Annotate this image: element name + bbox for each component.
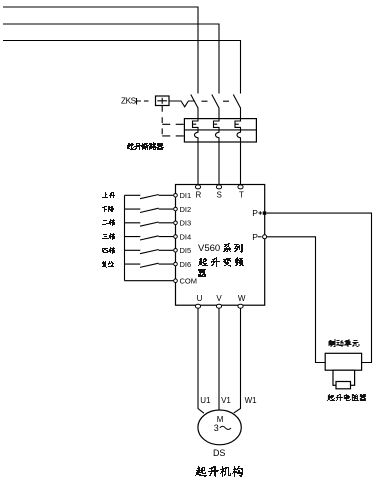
- magnetic trip element pole 2: [214, 119, 220, 130]
- label 下降: [102, 206, 114, 212]
- label 二档: [102, 219, 115, 226]
- switch contact 二档: [125, 222, 174, 224]
- dashed trip link upper: [162, 123, 184, 125]
- svg-text:ZKS: ZKS: [121, 96, 137, 105]
- label line3 器: [198, 269, 206, 277]
- svg-text:S: S: [217, 190, 222, 199]
- ZKS contact tick: [137, 98, 142, 105]
- label 起升电阻器: [327, 394, 366, 401]
- terminal T: [238, 185, 243, 189]
- svg-text:DI6: DI6: [180, 260, 192, 269]
- terminal DI1: [174, 194, 178, 198]
- wire QF to inverter T: [240, 142, 242, 185]
- thermal trip element pole 3: [237, 130, 241, 142]
- wire L1 phase-A feed: [3, 7, 198, 94]
- thermal trip element pole 1: [195, 130, 199, 142]
- motor DS circle: [198, 410, 241, 445]
- svg-text:W1: W1: [245, 396, 258, 405]
- wire L2 phase-B feed: [3, 24, 219, 94]
- wire blade to trip body pole 2: [218, 108, 220, 120]
- label 起升机构: [195, 466, 243, 477]
- inverter V560 box: [176, 185, 265, 306]
- label 四档: [102, 247, 115, 254]
- svg-text:V: V: [216, 294, 222, 303]
- label 制动单元: [329, 339, 360, 347]
- trip unit box with plus: [156, 96, 170, 106]
- svg-text:3: 3: [214, 423, 219, 433]
- switch contact 三档: [125, 236, 174, 238]
- breaker QF pole 2 blade: [212, 95, 219, 109]
- terminal DI5: [174, 249, 178, 253]
- label 起升断路器: [127, 142, 164, 150]
- thermal trip element pole 2: [216, 130, 220, 142]
- breaker linkage dash 2-3: [223, 100, 229, 102]
- svg-text:COM: COM: [180, 277, 198, 286]
- terminal DI3: [174, 221, 178, 225]
- terminal P-: [263, 235, 267, 239]
- dashed trip link lower: [162, 135, 184, 137]
- svg-text:DI5: DI5: [180, 246, 192, 255]
- terminal DI2: [174, 207, 178, 211]
- wire trip box to breaker linkage with V kink: [169, 101, 194, 107]
- dashed trip linkage vertical: [161, 106, 163, 137]
- resistor body box: [333, 370, 355, 385]
- svg-text:T: T: [239, 190, 244, 199]
- terminal P+: [263, 211, 266, 214]
- wire L3 phase-C feed: [3, 41, 241, 94]
- label line2 起升变频: [198, 257, 244, 267]
- svg-text:DI2: DI2: [180, 205, 192, 214]
- svg-text:V1: V1: [221, 396, 231, 405]
- terminal W: [238, 304, 243, 308]
- wire V to motor V1: [218, 308, 220, 410]
- terminal DI6: [174, 262, 178, 266]
- svg-text:P: P: [252, 232, 258, 242]
- label 上升: [102, 192, 115, 198]
- breaker linkage dash 1-2: [202, 100, 208, 102]
- terminal U: [195, 304, 200, 308]
- wire blade to trip body pole 1: [197, 108, 199, 120]
- magnetic trip element pole 3: [235, 119, 241, 130]
- terminal R: [195, 185, 200, 189]
- breaker QF pole 1 blade: [191, 95, 198, 109]
- svg-text:W: W: [238, 294, 246, 303]
- switch contact 四档: [125, 249, 174, 251]
- breaker QF pole 3 blade: [233, 95, 240, 109]
- terminal S: [216, 185, 221, 189]
- label 三档: [102, 233, 115, 240]
- terminal DI4: [174, 235, 178, 239]
- svg-text:DI4: DI4: [180, 233, 192, 242]
- svg-text:R: R: [196, 190, 202, 199]
- wire P- to braking unit: [267, 237, 326, 363]
- resistor element box: [336, 382, 351, 389]
- svg-text:DI3: DI3: [180, 219, 192, 228]
- svg-text:DI1: DI1: [180, 191, 192, 200]
- wire QF to inverter R: [197, 142, 199, 185]
- svg-text:V560: V560: [198, 243, 220, 254]
- label 复位: [102, 261, 114, 268]
- control bus vertical: [124, 195, 126, 280]
- svg-text:DS: DS: [213, 448, 226, 458]
- wire ZKS to trip box: [144, 100, 149, 102]
- wire U to motor U1: [198, 308, 204, 413]
- wire COM row: [125, 280, 174, 282]
- switch contact 上升: [125, 194, 174, 196]
- svg-text:U: U: [197, 294, 203, 303]
- wire QF to inverter S: [218, 142, 220, 185]
- breaker trip body box: [184, 119, 256, 142]
- wire P+ to braking unit: [266, 213, 371, 362]
- braking unit box: [325, 353, 361, 370]
- switch contact 复位: [125, 263, 174, 265]
- svg-text:U1: U1: [200, 396, 211, 405]
- wire blade to trip body pole 3: [240, 108, 242, 120]
- svg-text:P: P: [252, 208, 258, 218]
- terminal COM: [174, 279, 178, 283]
- wire W to motor W1: [234, 308, 241, 413]
- terminal V: [216, 304, 221, 308]
- switch contact 下降: [125, 208, 174, 210]
- magnetic trip element pole 1: [193, 119, 199, 130]
